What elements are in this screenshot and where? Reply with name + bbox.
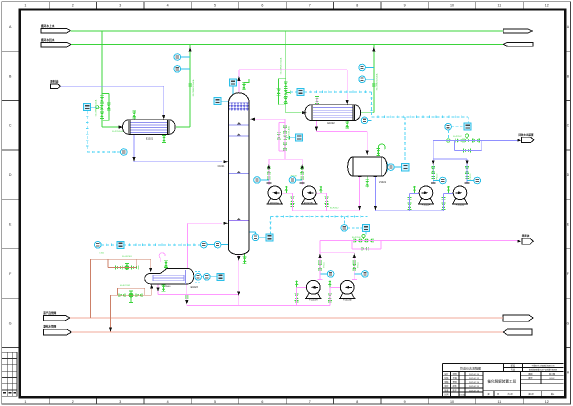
svg-text:50-CWS2103-A1A: 50-CWS2103-A1A bbox=[280, 57, 283, 74]
svg-text:11: 11 bbox=[498, 400, 502, 404]
svg-text:40-SC2102: 40-SC2102 bbox=[120, 285, 131, 287]
svg-text:10: 10 bbox=[450, 4, 454, 8]
svg-text:回收水出装置: 回收水出装置 bbox=[519, 133, 535, 137]
svg-text:P2111: P2111 bbox=[358, 261, 360, 267]
svg-text:8: 8 bbox=[356, 400, 358, 404]
svg-text:8: 8 bbox=[356, 4, 358, 8]
svg-text:2025.07.10: 2025.07.10 bbox=[469, 374, 480, 376]
svg-text:50-LS2101: 50-LS2101 bbox=[122, 256, 133, 258]
svg-text:P2110: P2110 bbox=[436, 173, 438, 180]
svg-text:3: 3 bbox=[119, 400, 121, 404]
svg-text:5: 5 bbox=[214, 4, 216, 8]
svg-text:2: 2 bbox=[72, 400, 74, 404]
svg-text:D: D bbox=[9, 173, 12, 177]
svg-text:12: 12 bbox=[545, 400, 549, 404]
svg-text:80-CWR2102-A1A: 80-CWR2102-A1A bbox=[192, 79, 195, 96]
svg-text:50-CWS2101-A1A: 50-CWS2101-A1A bbox=[95, 99, 98, 116]
svg-text:凝结水管网: 凝结水管网 bbox=[43, 325, 56, 329]
svg-text:9: 9 bbox=[404, 4, 406, 8]
svg-text:循环水回水: 循环水回水 bbox=[40, 38, 55, 42]
svg-text:5: 5 bbox=[214, 400, 216, 404]
svg-text:P1023B: P1023B bbox=[343, 298, 352, 301]
svg-text:4: 4 bbox=[167, 4, 169, 8]
svg-text:1:100: 1:100 bbox=[459, 394, 465, 396]
svg-text:管道仪表流程图: 管道仪表流程图 bbox=[460, 366, 481, 371]
svg-text:C1021: C1021 bbox=[218, 166, 225, 168]
svg-text:50-P2107: 50-P2107 bbox=[453, 136, 463, 138]
svg-text:3: 3 bbox=[119, 4, 121, 8]
svg-text:1: 1 bbox=[24, 4, 26, 8]
svg-text:80-CWR2104-A1A: 80-CWR2104-A1A bbox=[376, 73, 379, 90]
svg-text:塔底油: 塔底油 bbox=[522, 234, 530, 238]
svg-text:P1022A: P1022A bbox=[422, 203, 431, 206]
svg-text:V1021: V1021 bbox=[379, 181, 387, 184]
svg-text:E1023: E1023 bbox=[191, 286, 199, 289]
svg-text:2025.07.16: 2025.07.16 bbox=[469, 390, 480, 392]
svg-text:原料油: 原料油 bbox=[50, 80, 58, 84]
svg-text:11: 11 bbox=[498, 4, 502, 8]
svg-text:E: E bbox=[567, 223, 569, 227]
svg-text:P2111: P2111 bbox=[323, 261, 325, 267]
svg-text:1: 1 bbox=[24, 400, 26, 404]
svg-text:E1021: E1021 bbox=[146, 137, 154, 140]
svg-text:80-P2106: 80-P2106 bbox=[352, 237, 362, 239]
svg-text:B: B bbox=[567, 74, 569, 78]
svg-text:7: 7 bbox=[309, 4, 311, 8]
svg-text:循环水上水: 循环水上水 bbox=[40, 24, 55, 28]
svg-text:4: 4 bbox=[167, 400, 169, 404]
svg-text:C: C bbox=[9, 124, 12, 128]
svg-text:7: 7 bbox=[309, 400, 311, 404]
svg-text:12: 12 bbox=[545, 4, 549, 8]
svg-text:2025.07.12: 2025.07.12 bbox=[469, 378, 480, 380]
svg-text:P1021A: P1021A bbox=[270, 202, 279, 205]
svg-text:9: 9 bbox=[404, 400, 406, 404]
svg-text:催化裂解装置工段: 催化裂解装置工段 bbox=[487, 379, 516, 384]
svg-text:E1022: E1022 bbox=[327, 122, 335, 125]
svg-text:6: 6 bbox=[261, 4, 263, 8]
svg-text:2025.07.15: 2025.07.15 bbox=[469, 386, 480, 388]
svg-text:2025.07.14: 2025.07.14 bbox=[469, 382, 480, 384]
svg-text:DN40: DN40 bbox=[165, 286, 171, 288]
svg-text:蒸汽自管网: 蒸汽自管网 bbox=[43, 311, 56, 315]
svg-text:80-P2112: 80-P2112 bbox=[330, 208, 339, 210]
svg-text:P1023A: P1023A bbox=[309, 298, 318, 301]
svg-text:G: G bbox=[9, 321, 12, 325]
svg-text:10: 10 bbox=[450, 400, 454, 404]
svg-text:P1022B: P1022B bbox=[456, 203, 465, 206]
svg-text:6: 6 bbox=[261, 400, 263, 404]
svg-text:P1021B: P1021B bbox=[304, 202, 313, 205]
svg-text:P2110: P2110 bbox=[470, 173, 472, 180]
svg-text:F: F bbox=[567, 272, 569, 276]
svg-text:2: 2 bbox=[72, 4, 74, 8]
